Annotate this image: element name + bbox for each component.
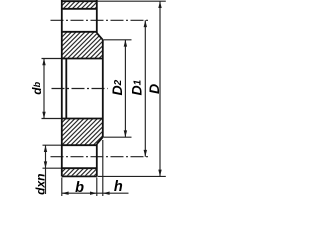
svg-text:D2: D2 [109,79,125,95]
svg-text:D1: D1 [128,79,144,95]
svg-text:db: db [30,81,44,94]
svg-text:b: b [75,180,84,196]
svg-text:dxn: dxn [34,174,48,195]
svg-text:h: h [114,179,123,195]
svg-text:D: D [146,84,162,94]
